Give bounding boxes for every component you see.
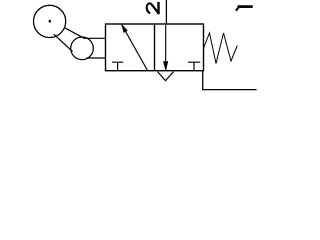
valve body divider	[154, 24, 156, 71]
roller circle	[34, 5, 66, 37]
label 1 (rotated digit)	[236, 7, 253, 11]
right box blocked port T	[188, 62, 200, 70]
lever lower line	[54, 34, 73, 51]
right box flow line down	[165, 24, 167, 70]
label 2 (rotated digit)	[147, 2, 159, 14]
exhaust triangle port 3	[158, 72, 174, 81]
roller center dot	[49, 20, 52, 23]
pivot circle	[71, 37, 94, 60]
left box flow path diagonal	[125, 31, 147, 71]
left box flow arrowhead	[122, 25, 128, 33]
valve body outline	[106, 24, 204, 71]
lever upper line	[65, 28, 84, 39]
plunger upper line	[84, 37, 106, 39]
port 2 connection line	[165, 0, 167, 24]
right box flow arrowhead down	[164, 62, 168, 71]
port 1 connection wire	[203, 71, 257, 90]
plunger lower line	[87, 57, 107, 59]
spring	[204, 33, 238, 64]
left box blocked port T	[112, 62, 123, 70]
